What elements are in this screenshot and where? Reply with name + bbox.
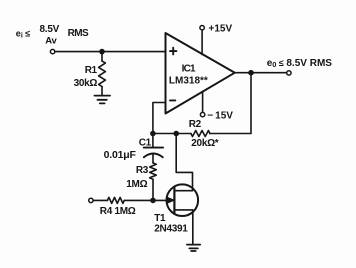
svg-text:0.01μF: 0.01μF [104, 149, 137, 161]
svg-text:+15V: +15V [209, 24, 233, 35]
svg-text:ei ≤: ei ≤ [16, 28, 30, 39]
svg-text:C1: C1 [139, 138, 152, 149]
svg-text:− 15V: − 15V [207, 111, 233, 122]
svg-text:e0 ≤ 8.5V RMS: e0 ≤ 8.5V RMS [267, 58, 333, 69]
svg-text:R1: R1 [85, 65, 98, 76]
svg-text:RMS: RMS [68, 28, 89, 39]
svg-text:2N4391: 2N4391 [154, 224, 188, 235]
svg-text:8.5V: 8.5V [40, 24, 60, 35]
svg-text:IC1: IC1 [182, 63, 196, 74]
svg-text:R4 1MΩ: R4 1MΩ [100, 206, 136, 217]
svg-text:R3: R3 [136, 165, 149, 176]
svg-text:LM318**: LM318** [169, 76, 208, 87]
svg-text:30kΩ: 30kΩ [74, 78, 98, 89]
svg-text:20kΩ*: 20kΩ* [191, 138, 219, 149]
svg-text:Av: Av [45, 36, 57, 47]
svg-text:R2: R2 [189, 119, 202, 130]
svg-text:1MΩ: 1MΩ [126, 179, 147, 190]
